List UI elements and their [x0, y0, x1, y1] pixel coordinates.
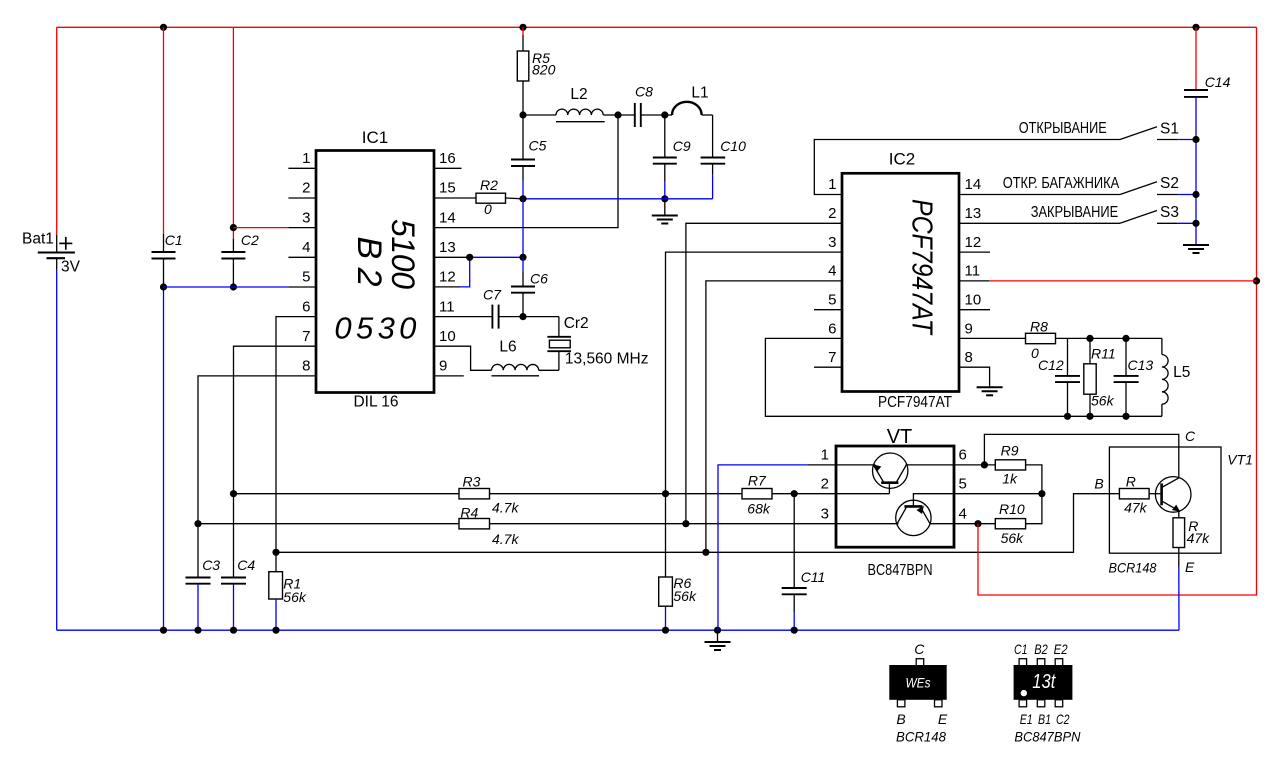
- capacitor C3: [186, 524, 221, 631]
- svg-text:13t: 13t: [1032, 671, 1056, 693]
- node junction R5/C5/L2: [519, 111, 526, 118]
- svg-text:2: 2: [302, 180, 310, 197]
- svg-text:BC847BPN: BC847BPN: [1014, 728, 1081, 744]
- node junction S2: [1192, 191, 1199, 198]
- transistor VT upper half: [836, 453, 954, 494]
- IC IC1 (5100 B2 0530, DIL 16): [316, 128, 434, 411]
- IC IC2 (PCF7947AT): [842, 150, 959, 412]
- node junction pin13: [466, 254, 473, 261]
- node junction S1: [1192, 136, 1199, 143]
- node junction rail C3: [194, 627, 201, 634]
- node junction rail R11: [1086, 413, 1093, 420]
- svg-text:R10: R10: [999, 501, 1025, 517]
- capacitor C13: [1114, 338, 1154, 416]
- capacitor C8: [618, 84, 665, 128]
- resistor R10: [954, 494, 1042, 546]
- node junction rail R6: [662, 627, 669, 634]
- node junction rail ground: [714, 627, 721, 634]
- svg-text:R11: R11: [1091, 346, 1116, 362]
- wire IC1 pin7 drop: [234, 346, 317, 494]
- svg-text:47k: 47k: [1187, 530, 1211, 546]
- svg-text:S1: S1: [1160, 120, 1179, 137]
- svg-text:B2: B2: [1034, 641, 1048, 657]
- svg-text:8: 8: [965, 349, 973, 366]
- svg-text:11: 11: [439, 298, 455, 315]
- resistor R6: [659, 494, 697, 631]
- svg-text:C11: C11: [801, 569, 826, 585]
- node junction ground rail at C1: [160, 627, 167, 634]
- svg-text:ОТКР. БАГАЖНИКА: ОТКР. БАГАЖНИКА: [1003, 175, 1120, 192]
- svg-text:VT: VT: [887, 426, 913, 448]
- capacitor C5: [511, 115, 547, 199]
- resistor R5: [517, 27, 555, 115]
- svg-text:R9: R9: [1001, 442, 1019, 458]
- svg-text:E1: E1: [1020, 711, 1033, 727]
- svg-text:3: 3: [828, 234, 836, 251]
- resistor R9: [954, 442, 1042, 493]
- wire IC1 pin3 to C2 (red): [233, 227, 316, 229]
- svg-text:ЗАКРЫВАНИЕ: ЗАКРЫВАНИЕ: [1031, 204, 1119, 221]
- node junction row552 / R1: [272, 549, 279, 556]
- capacitor C1: [152, 27, 183, 287]
- svg-text:L2: L2: [570, 86, 587, 103]
- node junction pin5 row at C1: [160, 283, 167, 290]
- svg-text:4: 4: [959, 505, 967, 522]
- resistor R3: [234, 474, 666, 516]
- transistor VT (BC847BPN dual) box: [821, 426, 967, 579]
- node junction C9/ground/blue row: [661, 195, 668, 202]
- svg-text:C7: C7: [483, 287, 502, 303]
- svg-text:4: 4: [828, 263, 836, 280]
- svg-text:C2: C2: [1056, 711, 1070, 727]
- node junction R8 row R11: [1086, 335, 1093, 342]
- svg-text:6: 6: [302, 298, 310, 315]
- svg-text:11: 11: [965, 263, 981, 280]
- node junction R4row/riser: [682, 520, 689, 527]
- svg-text:56k: 56k: [1091, 393, 1115, 409]
- wire VT pin5 row: [954, 493, 1042, 495]
- wire top power rail (red): [57, 26, 1257, 28]
- svg-text:2: 2: [821, 475, 829, 492]
- svg-text:0: 0: [484, 201, 492, 217]
- capacitor C2: [221, 27, 259, 287]
- resistor R 47k (emitter): [1173, 518, 1210, 630]
- svg-text:4.7k: 4.7k: [492, 500, 519, 516]
- svg-text:DIL 16: DIL 16: [353, 394, 398, 411]
- package SOT-363 BC847BPN: [1014, 641, 1082, 744]
- svg-text:14: 14: [965, 176, 982, 193]
- IC1 pin stubs and numbers: [288, 150, 463, 376]
- svg-text:3: 3: [821, 505, 829, 522]
- svg-text:8: 8: [302, 358, 310, 375]
- IC2 pin stubs and numbers: [814, 176, 990, 367]
- wire blue row pin15 to C10: [523, 198, 713, 200]
- svg-text:ОТКРЫВАНИЕ: ОТКРЫВАНИЕ: [1019, 120, 1107, 137]
- svg-text:C13: C13: [1128, 357, 1154, 373]
- svg-text:IC2: IC2: [889, 150, 915, 169]
- svg-text:1: 1: [821, 447, 829, 464]
- node junction L2/C8/pin14: [614, 111, 621, 118]
- svg-text:C1: C1: [165, 232, 183, 248]
- resistor R11: [1084, 338, 1116, 416]
- svg-text:Cr2: Cr2: [564, 315, 589, 332]
- svg-text:6: 6: [828, 320, 836, 337]
- svg-text:S3: S3: [1160, 204, 1179, 221]
- resistor R1: [269, 552, 307, 630]
- node junction VT pin6 / C line: [981, 461, 988, 468]
- wire IC2 pin6 loop: [765, 338, 1162, 416]
- wire IC1 pin8 drop: [198, 376, 316, 524]
- svg-text:5: 5: [828, 292, 836, 309]
- node junction R4 row / C3: [194, 520, 201, 527]
- capacitor C10: [701, 115, 746, 199]
- resistor R7: [666, 473, 837, 517]
- node junction R3row/R6/riser: [662, 490, 669, 497]
- node junction top rail at C14: [1192, 24, 1199, 31]
- ground at C9: [652, 199, 678, 224]
- wire IC2 pin11 red: [959, 280, 1257, 282]
- wire IC2 pin4 riser: [706, 281, 842, 552]
- capacitor C7: [434, 287, 523, 329]
- svg-text:9: 9: [965, 320, 973, 337]
- svg-text:5: 5: [302, 269, 310, 286]
- inductor L2: [523, 86, 618, 122]
- svg-text:C3: C3: [202, 557, 220, 573]
- wire IC2 pin1 riser to S1: [814, 140, 1120, 195]
- node junction C8/C9/L1: [661, 111, 668, 118]
- capacitor C12: [1038, 338, 1080, 416]
- svg-text:56k: 56k: [673, 588, 697, 604]
- svg-text:B1: B1: [1038, 711, 1051, 727]
- node junction C6/C7/Cr2: [519, 313, 526, 320]
- svg-text:7: 7: [302, 328, 310, 345]
- svg-text:2: 2: [828, 205, 836, 222]
- svg-text:B: B: [896, 711, 905, 727]
- node junction S3: [1192, 220, 1199, 227]
- svg-text:BCR148: BCR148: [896, 728, 946, 744]
- ground at switches: [1183, 245, 1209, 253]
- wire IC2 pin2 riser: [686, 223, 842, 523]
- svg-text:C4: C4: [237, 557, 255, 573]
- capacitor C11: [782, 494, 826, 631]
- svg-text:R2: R2: [480, 177, 498, 193]
- svg-text:L6: L6: [499, 338, 516, 355]
- wire row552: [276, 494, 1119, 553]
- resistor R2: [434, 177, 523, 217]
- switch S3: [959, 204, 1196, 224]
- node junction rail C4: [230, 627, 237, 634]
- svg-text:R: R: [1126, 474, 1136, 490]
- svg-text:B: B: [1094, 476, 1103, 492]
- node junction R3 row / C4: [230, 490, 237, 497]
- svg-text:C8: C8: [635, 84, 653, 100]
- switch S2: [959, 175, 1196, 195]
- svg-text:R4: R4: [460, 505, 478, 521]
- svg-text:5: 5: [959, 475, 967, 492]
- wire collector C line: [984, 428, 1196, 478]
- svg-text:10: 10: [965, 292, 982, 309]
- wire IC1 pin6 drop: [276, 317, 316, 553]
- svg-text:47k: 47k: [1124, 500, 1148, 516]
- svg-text:14: 14: [439, 209, 456, 226]
- svg-text:VT1: VT1: [1227, 452, 1253, 468]
- svg-text:R7: R7: [748, 473, 767, 489]
- svg-text:7: 7: [828, 349, 836, 366]
- svg-text:12: 12: [439, 269, 456, 286]
- svg-text:WEs: WEs: [906, 676, 931, 691]
- crystal Cr2 13,560 MHz: [523, 315, 648, 370]
- capacitor C4: [221, 494, 255, 631]
- svg-text:C9: C9: [673, 138, 691, 154]
- svg-text:13: 13: [965, 205, 982, 222]
- node junction C6 top: [519, 254, 526, 261]
- svg-text:C1: C1: [1014, 641, 1028, 657]
- svg-text:L5: L5: [1173, 364, 1190, 381]
- svg-text:56k: 56k: [283, 589, 307, 605]
- svg-text:820: 820: [532, 62, 556, 78]
- node junction pin5 row at C2: [230, 283, 237, 290]
- svg-text:15: 15: [439, 180, 456, 197]
- svg-text:BCR148: BCR148: [1109, 560, 1157, 576]
- node junction VT pin4 / red: [974, 520, 981, 527]
- node junction R8 row C13: [1122, 335, 1129, 342]
- svg-text:S2: S2: [1160, 175, 1179, 192]
- svg-text:BC847BPN: BC847BPN: [868, 562, 933, 579]
- svg-text:L1: L1: [691, 85, 708, 102]
- svg-text:5100: 5100: [385, 219, 421, 289]
- svg-text:IC1: IC1: [362, 128, 388, 147]
- package SOT-23 BCR148: [889, 641, 948, 744]
- wire bottom ground rail (blue): [57, 629, 1179, 631]
- node junction IC1 pin3 at C2: [230, 224, 237, 231]
- switch S1: [1019, 120, 1196, 140]
- svg-text:PCF7947AT: PCF7947AT: [905, 199, 937, 336]
- node junction rail C11: [791, 627, 798, 634]
- wire red pin4 loop to right rail: [978, 27, 1257, 595]
- resistor R4: [198, 505, 836, 548]
- svg-text:C14: C14: [1205, 74, 1231, 90]
- wire VT pin1 blue: [718, 465, 836, 630]
- wire blue pin13 jog: [434, 199, 523, 287]
- wire VT pin2 row: [836, 493, 889, 495]
- svg-text:C: C: [1185, 428, 1196, 444]
- resistor R8: [959, 319, 1162, 362]
- inductor L5: [1162, 338, 1190, 416]
- node junction rail C13: [1122, 413, 1129, 420]
- svg-text:12: 12: [965, 234, 982, 251]
- svg-text:4.7k: 4.7k: [492, 531, 519, 547]
- inductor L6: [434, 338, 559, 376]
- svg-text:C: C: [914, 641, 925, 657]
- svg-text:3V: 3V: [61, 259, 81, 276]
- svg-text:E2: E2: [1054, 641, 1068, 657]
- wire IC2 pin3 riser: [666, 252, 843, 494]
- wire C1 node to ground rail (blue): [163, 287, 165, 630]
- node junction rail C12: [1064, 413, 1071, 420]
- svg-text:C5: C5: [529, 138, 547, 154]
- capacitor C6: [511, 257, 548, 316]
- node junction rail R1: [272, 627, 279, 634]
- capacitor C9: [653, 115, 691, 199]
- node junction R2/C5: [519, 195, 526, 202]
- svg-text:E: E: [1185, 559, 1195, 575]
- ground at IC2 pin8: [959, 367, 1003, 395]
- inductor L1: [665, 85, 713, 116]
- svg-text:13,560 MHz: 13,560 MHz: [565, 351, 649, 368]
- svg-text:R8: R8: [1030, 319, 1048, 335]
- svg-text:1: 1: [302, 150, 310, 167]
- svg-text:C10: C10: [720, 138, 746, 154]
- svg-text:68k: 68k: [747, 501, 771, 517]
- svg-text:C2: C2: [241, 232, 259, 248]
- svg-text:C6: C6: [530, 270, 548, 286]
- svg-text:6: 6: [959, 447, 967, 464]
- svg-text:9: 9: [439, 358, 447, 375]
- svg-text:10: 10: [439, 328, 456, 345]
- svg-text:R3: R3: [463, 474, 481, 490]
- svg-text:3: 3: [302, 209, 310, 226]
- node junction red right rail / pin11: [1253, 277, 1260, 284]
- node junction R9/R10/pin5: [1038, 490, 1045, 497]
- svg-text:16: 16: [439, 150, 456, 167]
- battery Bat1: [22, 27, 81, 630]
- node junction top rail at C1: [160, 24, 167, 31]
- node junction R7/C11: [791, 490, 798, 497]
- node junction row552/riser: [702, 549, 709, 556]
- svg-text:Bat1: Bat1: [22, 231, 54, 248]
- ground at rail: [705, 630, 731, 650]
- capacitor C14: [1184, 27, 1231, 245]
- svg-text:13: 13: [439, 239, 456, 256]
- wire IC1 pin14 riser: [434, 115, 618, 228]
- node junction top rail at R5: [519, 24, 526, 31]
- svg-text:PCF7947AT: PCF7947AT: [878, 394, 952, 411]
- resistor R 47k (base): [1119, 474, 1161, 516]
- svg-text:1: 1: [828, 176, 836, 193]
- svg-text:4: 4: [302, 239, 310, 256]
- transistor VT lower half: [836, 494, 954, 536]
- svg-text:E: E: [938, 711, 948, 727]
- wire IC1 pin5 to C2/C1 (blue): [164, 286, 317, 288]
- transistor VT1 npn: [1155, 477, 1191, 518]
- transistor VT1 (BCR148) box: [1094, 447, 1253, 576]
- svg-text:56k: 56k: [1001, 530, 1025, 546]
- svg-text:1k: 1k: [1002, 470, 1018, 486]
- svg-text:C12: C12: [1038, 357, 1064, 373]
